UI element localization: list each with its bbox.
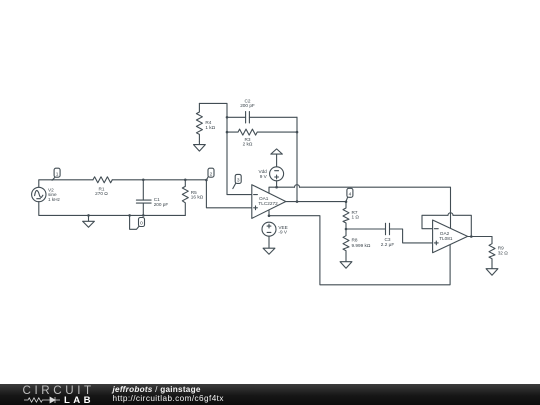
svg-text:3: 3 <box>237 178 240 184</box>
voltage source V2 <box>32 187 46 201</box>
C3 value label <box>381 237 395 247</box>
svg-text:16 kΩ: 16 kΩ <box>191 195 204 200</box>
node 4 tag <box>346 197 348 201</box>
svg-text:0: 0 <box>140 221 143 227</box>
capacitor C1 <box>142 180 144 200</box>
C2 value label <box>240 99 255 109</box>
resistor R3 <box>227 129 297 135</box>
C1 value label <box>154 197 169 207</box>
wire V+ rail OA1 to OA2 with hop over feedback <box>269 187 295 193</box>
svg-text:1 kHz: 1 kHz <box>48 197 61 202</box>
node 0 tag <box>130 215 139 229</box>
svg-text:TLC2272: TLC2272 <box>258 201 278 206</box>
svg-text:1 Ω: 1 Ω <box>352 215 360 220</box>
wire Vdd to V+ rail <box>276 181 278 187</box>
junction R3 left <box>226 131 229 134</box>
resistor R8 <box>343 229 349 262</box>
R3 value label <box>243 137 253 147</box>
resistor R7 <box>343 202 349 229</box>
wire R4 top to left feedback vertical <box>199 103 251 194</box>
ground under R8 <box>340 262 352 269</box>
junction at ground tap <box>87 214 90 217</box>
wire OA2 output to R9 <box>468 236 492 238</box>
voltage source Vdd <box>270 167 284 181</box>
capacitor C3 <box>346 228 386 230</box>
svg-text:-9 V: -9 V <box>278 230 287 235</box>
node 1 tag <box>52 177 55 180</box>
junction C1 bottom <box>142 214 145 217</box>
svg-text:C3: C3 <box>385 237 391 242</box>
junction Vdd tap <box>275 186 278 189</box>
R9 value label <box>498 245 509 255</box>
svg-text:1 kΩ: 1 kΩ <box>205 125 215 130</box>
ground under VEE <box>263 248 275 254</box>
resistor R4 <box>196 103 202 141</box>
ground under R4 <box>198 142 200 145</box>
VEE value label <box>278 225 287 235</box>
wire VEE to ground <box>268 236 270 248</box>
svg-text:32 Ω: 32 Ω <box>498 251 509 256</box>
node 3 tag <box>233 183 236 189</box>
attribution text <box>113 386 201 395</box>
wire OA1 V- stub <box>268 210 270 216</box>
wire V2 bottom to bottom rail <box>39 202 186 216</box>
svg-text:2: 2 <box>210 171 213 177</box>
svg-text:2 kΩ: 2 kΩ <box>243 142 253 147</box>
svg-text:200 pF: 200 pF <box>154 202 169 207</box>
svg-text:2.2 μF: 2.2 μF <box>381 242 395 247</box>
CircuitLab logo <box>23 386 95 396</box>
junction R5 top <box>184 179 187 182</box>
capacitor C2 <box>227 116 246 118</box>
resistor R9 <box>489 237 495 269</box>
junction C1 top <box>142 179 145 182</box>
junction output-feedback <box>296 200 299 203</box>
junction node 4 <box>345 201 348 204</box>
op-amp OA1 TLC2272 <box>252 185 286 219</box>
resistor R5 <box>182 180 188 216</box>
R1 value label <box>95 187 108 197</box>
V2 value label <box>48 188 61 202</box>
svg-text:200 pF: 200 pF <box>240 103 255 108</box>
wire V- rail OA1 to OA2 <box>269 216 450 285</box>
Vdd value label <box>258 169 267 179</box>
ground under R9 <box>486 269 498 276</box>
junction OA2 output <box>470 235 473 238</box>
wire OA2 feedback loop with hop over V+ <box>422 215 448 228</box>
resistor R1 <box>93 177 112 183</box>
svg-text:9.999 kΩ: 9.999 kΩ <box>352 243 371 248</box>
wire top rail from V2 to node 2 <box>39 180 93 188</box>
R8 value label <box>352 238 371 248</box>
R5 value label <box>191 190 204 200</box>
node 2 tag <box>206 176 208 180</box>
junction C2 left <box>226 116 229 119</box>
voltage source VEE <box>262 222 276 236</box>
footer bar <box>0 384 540 405</box>
svg-text:4: 4 <box>349 192 352 198</box>
svg-text:270 Ω: 270 Ω <box>95 191 108 196</box>
junction R7/R8/C3 <box>345 228 348 231</box>
wire node2 to OA1 + input <box>206 180 251 208</box>
junction R3 right <box>296 131 299 134</box>
wire OA1 output to node 4 <box>286 201 346 203</box>
wire feedback right vertical to OA1 output <box>296 117 298 201</box>
svg-text:9 V: 9 V <box>260 174 268 179</box>
Vdd arrow symbol <box>271 149 283 154</box>
svg-text:R9: R9 <box>498 245 504 250</box>
ground (bottom rail) <box>88 215 90 221</box>
svg-text:1: 1 <box>56 171 59 177</box>
junction OA1 V- <box>268 214 271 217</box>
R4 value label <box>205 120 215 130</box>
R7 value label <box>352 210 360 220</box>
svg-text:TL081: TL081 <box>439 236 453 241</box>
op-amp OA2 TL081 <box>433 220 468 253</box>
